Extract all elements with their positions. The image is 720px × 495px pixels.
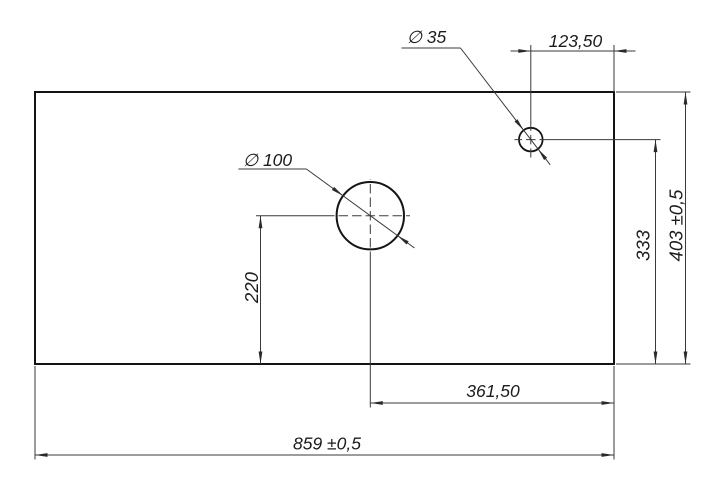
dim 361,50: right arrowhead [602, 401, 615, 405]
dim 361,50: extension line below hole D100 [369, 252, 371, 408]
leader D100: underline [238, 168, 306, 170]
dim 403: dimension line [685, 92, 687, 364]
dim 859: left extension line [34, 366, 36, 460]
hole D35 [519, 128, 543, 152]
leader D35: lower arrowhead [538, 149, 547, 160]
dim 333: bottom arrowhead [654, 352, 658, 365]
dim 220: dimension line [260, 216, 262, 364]
dim 361,50: dimension line [370, 402, 614, 404]
svg-text:403 ±0,5: 403 ±0,5 [666, 189, 687, 262]
dim 859: dimension line [35, 454, 614, 456]
dim 333: dimension line [655, 140, 657, 364]
hole D100 vertical center line [369, 180, 371, 252]
dim 123,50: right arrowhead [614, 49, 627, 53]
dim 333: extension line from hole D35 [549, 139, 661, 141]
dim 859: right arrowhead [602, 453, 615, 457]
dim 123,50: dimension line [511, 50, 636, 52]
svg-text:∅ 35: ∅ 35 [407, 27, 447, 47]
leader D35: underline [402, 47, 461, 49]
dim 403: top extension line [616, 91, 691, 93]
dim 361,50: right extension line below corner [613, 366, 615, 460]
leader D35: upper arrowhead [515, 119, 524, 130]
dim 859: left arrowhead [35, 453, 48, 457]
hole D100 horizontal center line [332, 215, 411, 217]
dim 220: bottom arrowhead [259, 352, 263, 365]
svg-text:361,50: 361,50 [466, 381, 520, 401]
dim 220: top arrowhead [259, 216, 263, 229]
dim 123,50: left arrowhead [518, 49, 531, 53]
dim 123,50: extension line from panel corner [613, 45, 615, 92]
hole D35 vertical center line [530, 123, 532, 158]
dim 403: bottom extension line [616, 363, 691, 365]
dim 333: top arrowhead [654, 140, 658, 153]
leader D100: upper arrowhead [332, 187, 343, 196]
leader D100: lower arrowhead [398, 236, 409, 245]
svg-text:∅ 100: ∅ 100 [243, 150, 293, 170]
hole D100 [337, 182, 404, 249]
dim 220: extension line from hole D100 center [256, 215, 332, 217]
dim 361,50: left arrowhead [370, 401, 383, 405]
svg-text:859 ±0,5: 859 ±0,5 [293, 434, 361, 454]
svg-text:220: 220 [241, 271, 262, 304]
svg-text:123,50: 123,50 [549, 31, 603, 51]
panel outline 859x403 [35, 92, 614, 364]
dim 403: top arrowhead [684, 92, 688, 105]
dim 123,50: extension line from hole D35 [530, 45, 532, 123]
dim 403: bottom arrowhead [684, 352, 688, 365]
svg-text:333: 333 [633, 229, 654, 261]
leader D100: diagonal through hole [306, 169, 414, 248]
hole D35 horizontal center line [515, 139, 549, 141]
leader D35: diagonal through hole [461, 48, 551, 165]
